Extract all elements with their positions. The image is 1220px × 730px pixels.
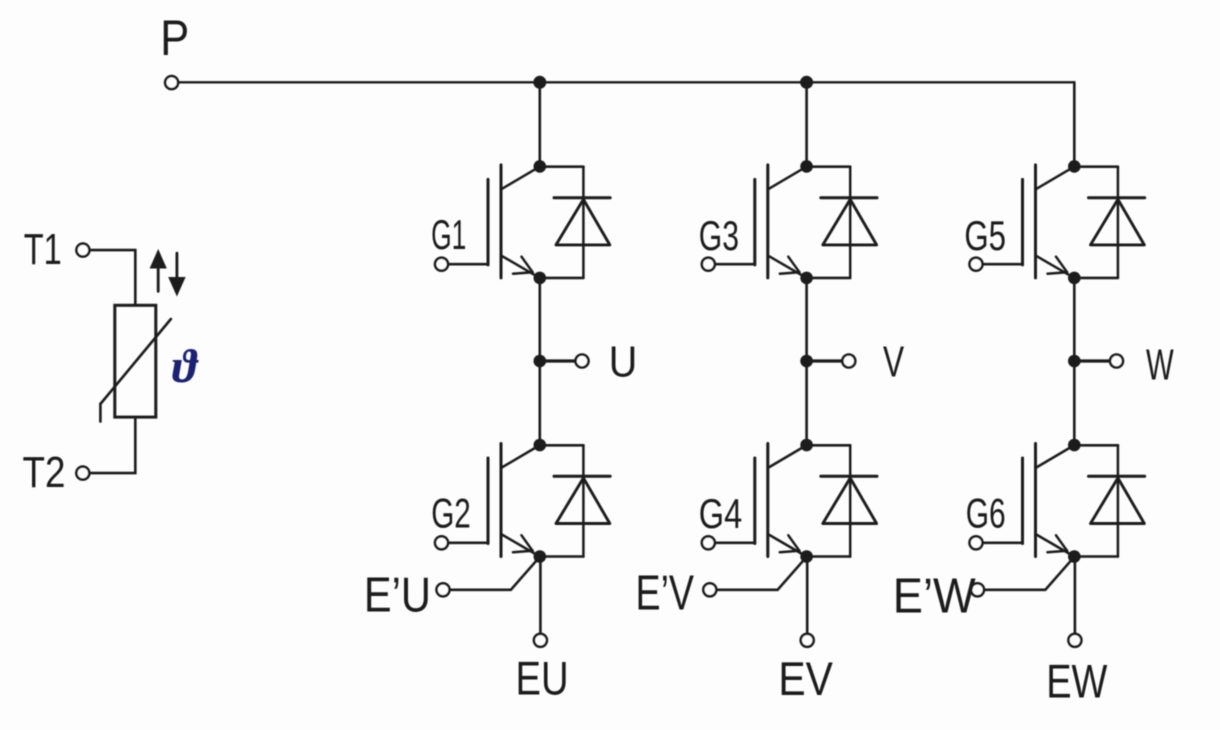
junction node V <box>800 355 813 368</box>
transistor Q4 (IGBT) <box>755 444 806 557</box>
terminal G4 <box>702 536 715 549</box>
terminal T2 <box>76 467 89 480</box>
transistor Q2 (IGBT) <box>488 444 539 557</box>
svg-text:EU: EU <box>516 652 569 705</box>
svg-text:V: V <box>883 338 905 387</box>
wire auxiliary emitter E'U <box>449 557 539 590</box>
wire P rail to Q3 collector <box>805 82 808 166</box>
wire gate G3 <box>715 263 755 266</box>
svg-text:E’W: E’W <box>893 569 977 623</box>
svg-text:G1: G1 <box>431 211 466 258</box>
junction node W <box>1068 355 1081 368</box>
junction Q2/D2 collector node <box>534 439 547 452</box>
terminal E'U <box>437 583 450 596</box>
wire node U to Q2 collector <box>538 361 541 445</box>
terminal E'V <box>703 583 716 596</box>
terminal W <box>1110 355 1123 368</box>
transistor Q5 (IGBT) <box>1023 165 1074 278</box>
junction Q4 emitter node <box>800 550 813 563</box>
wire Q5 emitter to node W <box>1073 278 1076 361</box>
wire auxiliary emitter E'V <box>716 557 806 590</box>
junction Q2 emitter node <box>534 550 547 563</box>
junction Q6/D6 collector node <box>1068 439 1081 452</box>
diode D3 (freewheeling) <box>807 167 877 278</box>
svg-text:G6: G6 <box>966 489 1006 536</box>
junction Q3 emitter node <box>800 272 813 285</box>
svg-text:E’V: E’V <box>636 567 695 621</box>
svg-text:G4: G4 <box>699 490 742 537</box>
wire node W to Q6 collector <box>1073 361 1076 445</box>
svg-text:T2: T2 <box>23 448 66 497</box>
terminal E'W <box>971 583 984 596</box>
junction node U <box>534 355 547 368</box>
svg-text:EV: EV <box>778 652 833 705</box>
wire node V to terminal <box>807 359 843 362</box>
wire T1 to thermistor <box>90 250 136 305</box>
thermistor RT1 <box>100 305 170 421</box>
junction Q6 emitter node <box>1068 550 1081 563</box>
junction Q1/D1 collector node <box>534 160 547 173</box>
terminal G2 <box>435 536 448 549</box>
terminal P <box>165 76 178 89</box>
junction P rail / leg 1 <box>533 76 546 89</box>
diode D1 (freewheeling) <box>540 167 610 278</box>
terminal G3 <box>702 258 715 271</box>
wire node W to terminal <box>1074 359 1110 362</box>
terminal EU <box>534 634 547 647</box>
svg-text:T1: T1 <box>24 225 62 274</box>
transistor Q6 (IGBT) <box>1023 444 1074 557</box>
terminal EW <box>1068 634 1081 647</box>
wire Q3 emitter to node V <box>805 278 808 361</box>
wire gate G1 <box>448 263 488 266</box>
wire Q6 emitter to terminal EW <box>1074 557 1077 634</box>
wire auxiliary emitter E'W <box>984 557 1074 590</box>
terminal G1 <box>435 258 448 271</box>
diode D6 (freewheeling) <box>1074 445 1144 556</box>
wire gate G5 <box>982 263 1022 266</box>
junction Q5 emitter node <box>1068 272 1081 285</box>
svg-text:E’U: E’U <box>364 568 431 622</box>
wire P rail to Q5 collector <box>1073 82 1076 166</box>
diode D4 (freewheeling) <box>807 445 877 556</box>
svg-text:G5: G5 <box>964 212 1006 259</box>
wire Q1 emitter to node U <box>538 278 541 361</box>
transistor Q3 (IGBT) <box>755 165 806 278</box>
wire thermistor to T2 <box>90 417 136 473</box>
junction Q5/D5 collector node <box>1068 160 1081 173</box>
terminal G6 <box>970 536 983 549</box>
wire Q2 emitter to terminal EU <box>539 557 542 634</box>
svg-text:U: U <box>609 337 638 386</box>
terminal U <box>576 355 589 368</box>
wire P rail to Q1 collector <box>538 82 541 166</box>
junction Q4/D4 collector node <box>800 439 813 452</box>
wire gate G6 <box>982 541 1022 544</box>
wire Q4 emitter to terminal EV <box>806 557 809 634</box>
wire node V to Q4 collector <box>805 361 808 445</box>
wire gate G2 <box>448 541 488 544</box>
junction P rail / leg 2 <box>800 76 813 89</box>
diode D5 (freewheeling) <box>1074 167 1144 278</box>
transistor Q1 (IGBT) <box>488 165 539 278</box>
svg-text:W: W <box>1146 340 1174 389</box>
thermistor RT1 arrows (bidirectional current) <box>150 249 186 297</box>
terminal T1 <box>76 244 89 257</box>
svg-text:G2: G2 <box>431 489 471 536</box>
net P rail (wire) <box>178 81 1074 83</box>
junction Q1 emitter node <box>534 272 547 285</box>
terminal EV <box>801 634 814 647</box>
svg-text:G3: G3 <box>699 212 739 259</box>
terminal V <box>842 355 855 368</box>
wire node U to terminal <box>540 359 576 362</box>
svg-text:P: P <box>160 10 189 66</box>
wire gate G4 <box>715 541 755 544</box>
terminal G5 <box>970 258 983 271</box>
diode D2 (freewheeling) <box>540 445 610 556</box>
svg-text:EW: EW <box>1046 654 1108 707</box>
svg-text:ϑ: ϑ <box>172 341 199 393</box>
junction Q3/D3 collector node <box>800 160 813 173</box>
